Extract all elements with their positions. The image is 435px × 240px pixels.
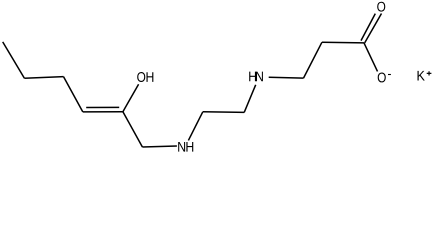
wire bond C1-N1 <box>142 146 177 147</box>
wire bond C2-C1 <box>123 112 142 147</box>
wire bond C3=C2 double bond main line <box>83 111 123 113</box>
atom label O (carbonyl oxygen) <box>377 2 385 12</box>
wire bond C11-O(-) <box>364 43 378 72</box>
charge plus sign on K <box>427 72 432 74</box>
wire bond C5-C4 <box>24 77 63 79</box>
wire bond C9-C10 <box>304 42 322 78</box>
wire bond C10-C11 <box>322 41 364 44</box>
wire bond C11=O double bond main line <box>365 14 382 44</box>
wire bond C11=O double bond inner line <box>361 14 375 41</box>
wire bond N1-C7 <box>188 112 202 141</box>
ion label K+ (potassium counterion) <box>418 71 425 81</box>
wire bond C4-C3 <box>64 77 83 112</box>
atom label HN (amine N2) <box>249 72 256 82</box>
wire bond C2-OH <box>123 84 139 112</box>
wire bond C6-C5 (CH3 to CH2) <box>3 42 25 78</box>
wire bond C7-C8 <box>203 111 244 114</box>
wire bond C8-N2 <box>244 85 256 113</box>
atom label OH (hydroxyl on C2) <box>137 72 145 82</box>
wire bond C3=C2 double bond inner line <box>86 106 119 108</box>
atom label O- (carboxylate oxygen) <box>378 73 386 83</box>
charge minus sign on carboxylate O <box>388 74 391 76</box>
wire bond N2-C9 <box>269 76 304 79</box>
atom label NH (amine N1) <box>178 142 185 152</box>
